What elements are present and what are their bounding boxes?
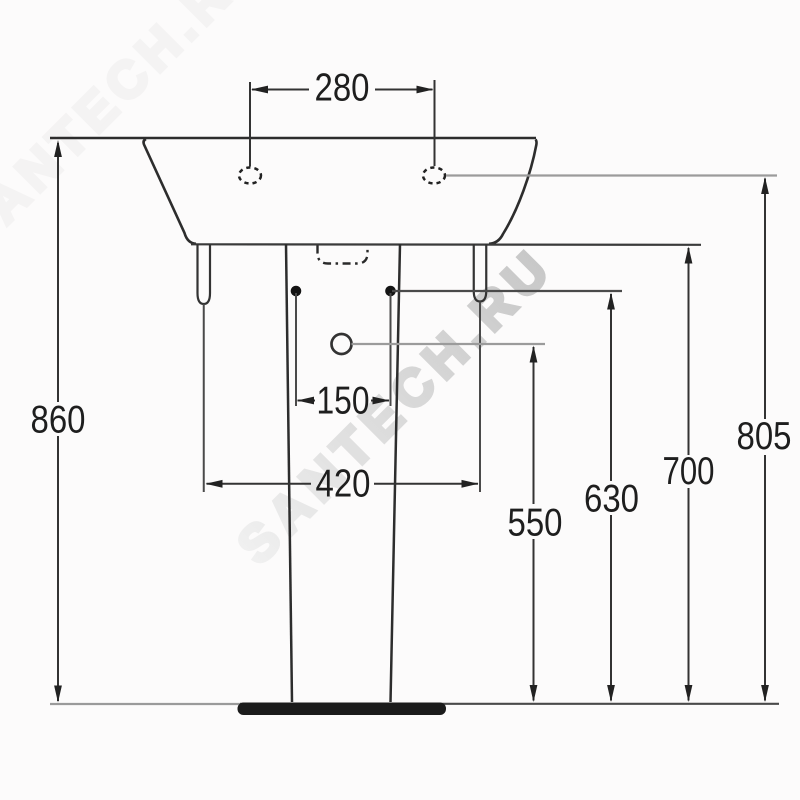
basin right edge xyxy=(489,140,537,244)
overflow tray dashed below basin xyxy=(318,246,368,264)
svg-text:860: 860 xyxy=(31,399,86,442)
wall/top line of basin xyxy=(50,137,536,140)
fixing channel right below basin xyxy=(474,244,487,302)
dim 280 extension line left xyxy=(249,82,251,167)
reference line 550 from circle xyxy=(352,343,546,345)
dim 630 line upper segment xyxy=(610,294,612,481)
dim 550 arrow up xyxy=(530,346,538,363)
pedestal fixing dot right xyxy=(385,286,396,297)
pedestal fixing dot left xyxy=(291,286,302,297)
dim 700 arrow up xyxy=(685,247,693,264)
dim 550 line lower segment xyxy=(533,539,535,701)
tap hole circle xyxy=(332,334,352,354)
basin left edge xyxy=(144,139,196,244)
dim 630 arrow down xyxy=(607,685,615,702)
dim 280 line left segment xyxy=(252,89,309,91)
pedestal base black bar xyxy=(238,703,447,716)
fixing channel left below basin xyxy=(198,244,211,304)
reference line 805 from right mounting hole xyxy=(446,174,777,176)
basin bottom edge + 700 extension line xyxy=(191,243,701,246)
dim 280 extension line right xyxy=(434,80,436,166)
pedestal left edge xyxy=(286,244,292,702)
dim 630 arrow up xyxy=(607,293,615,310)
watermark tile top-left faint xyxy=(0,0,276,264)
svg-text:550: 550 xyxy=(508,502,563,545)
dim 550 line upper segment xyxy=(533,347,535,504)
watermark SANTECH.RU center xyxy=(227,237,566,576)
dim 860 line upper segment xyxy=(57,143,59,402)
dim 630 line lower segment xyxy=(610,515,612,701)
floor line right segment xyxy=(240,703,779,705)
dim 860 arrow down xyxy=(54,686,62,703)
dim 860 arrow up xyxy=(54,140,62,157)
dim 150 extension left (from left dot down) xyxy=(295,293,297,406)
dim 420 extension line right (from channel) xyxy=(479,302,481,493)
dim 860 line lower segment xyxy=(57,436,59,701)
svg-text:150: 150 xyxy=(317,380,370,423)
dim 700 line lower segment xyxy=(688,488,690,701)
svg-text:630: 630 xyxy=(584,478,639,521)
dim 805 line upper segment xyxy=(764,179,766,420)
dim 420 arrow left xyxy=(206,480,223,488)
svg-text:700: 700 xyxy=(663,450,715,493)
svg-text:805: 805 xyxy=(737,415,792,458)
dim 280 arrow left xyxy=(251,86,268,94)
dim 805 line lower segment xyxy=(764,455,766,701)
mounting hole right (dashed ellipse) xyxy=(423,168,445,184)
pedestal right edge xyxy=(391,244,401,702)
dim 150 line right segment xyxy=(371,400,389,402)
dim 550 arrow down xyxy=(530,685,538,702)
dim 280 line right segment xyxy=(375,89,433,91)
dim 150 extension right (from right dot down) xyxy=(390,293,392,406)
reference line 630 from right dot xyxy=(392,290,622,292)
dim 420 extension line left (from channel) xyxy=(203,304,205,492)
dim 420 arrow right xyxy=(462,480,479,488)
svg-text:420: 420 xyxy=(316,463,371,506)
dim 150 line left segment xyxy=(298,400,316,402)
dim 150 arrow left xyxy=(297,397,314,405)
svg-text:280: 280 xyxy=(315,67,370,110)
mounting hole left (dashed ellipse) xyxy=(239,168,261,184)
dim 700 arrow down xyxy=(685,685,693,702)
dim 420 line right segment xyxy=(374,483,478,485)
dim 420 line left segment xyxy=(207,483,312,485)
dim 150 arrow right xyxy=(373,397,390,405)
dim 805 arrow up xyxy=(761,177,769,194)
dim 805 arrow down xyxy=(761,685,769,702)
floor line left gray segment xyxy=(50,703,240,705)
dim 700 line upper segment xyxy=(688,248,690,455)
dim 280 arrow right xyxy=(417,86,434,94)
